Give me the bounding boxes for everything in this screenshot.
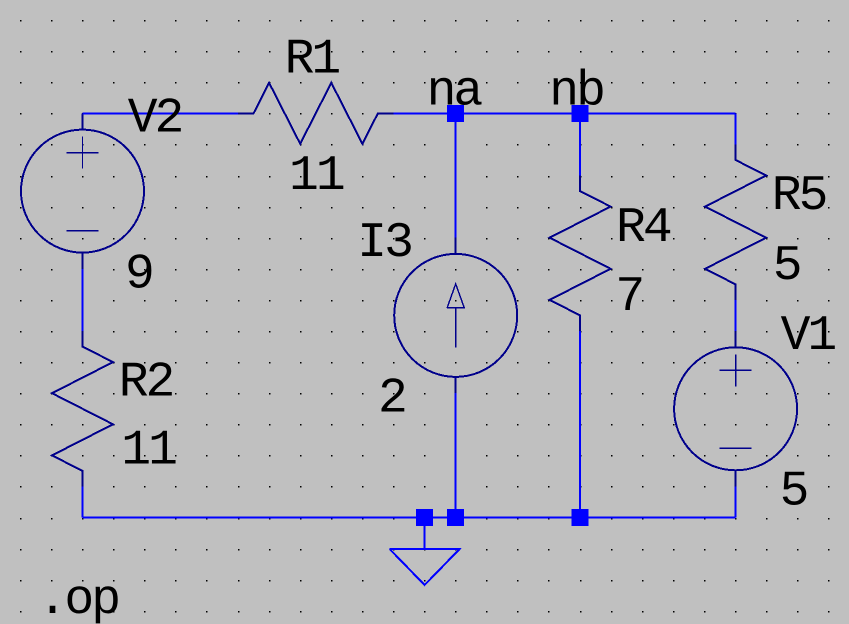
svg-text:9: 9 <box>125 247 152 303</box>
svg-text:I3: I3 <box>357 215 411 271</box>
svg-text:11: 11 <box>121 423 176 479</box>
svg-text:5: 5 <box>773 238 800 294</box>
svg-text:5: 5 <box>780 464 807 520</box>
svg-text:R2: R2 <box>119 355 173 411</box>
svg-text:nb: nb <box>549 63 603 119</box>
svg-text:na: na <box>427 63 483 119</box>
svg-text:11: 11 <box>289 148 344 204</box>
svg-text:R5: R5 <box>772 168 826 224</box>
svg-text:.op: .op <box>38 572 119 624</box>
svg-text:2: 2 <box>378 371 405 427</box>
svg-text:V1: V1 <box>781 308 836 364</box>
svg-text:7: 7 <box>615 269 642 325</box>
svg-text:R4: R4 <box>616 200 671 256</box>
svg-text:V2: V2 <box>128 91 182 147</box>
svg-text:R1: R1 <box>285 32 340 88</box>
